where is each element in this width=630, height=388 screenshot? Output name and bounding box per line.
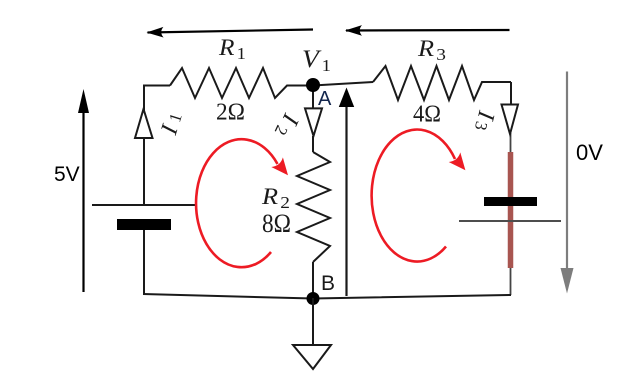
mesh current loop 2 (red, clockwise): [372, 130, 455, 262]
svg-text:4Ω: 4Ω: [413, 102, 441, 128]
resistor R3 zigzag: [373, 66, 511, 100]
wire R2 to node B: [312, 262, 314, 298]
arrow over R1 (points left): [148, 30, 314, 33]
mesh loop 2 arrowhead: [449, 152, 466, 170]
node V1 dot: [306, 78, 320, 92]
current arrow I3 (open triangle, down): [502, 105, 519, 135]
0V arrow (down, gray): [566, 72, 568, 277]
right battery thin plate: [459, 220, 561, 222]
svg-text:0V: 0V: [576, 140, 603, 165]
current arrow I1 (open triangle, up): [135, 109, 153, 138]
svg-text:B: B: [321, 272, 335, 295]
left battery thick plate: [117, 219, 171, 230]
ground wire: [312, 298, 314, 345]
label I2: [276, 109, 304, 129]
svg-text:5V: 5V: [54, 163, 80, 186]
5V arrow (up): [82, 104, 84, 292]
ground symbol: [293, 345, 331, 369]
label I3: [472, 107, 500, 123]
right battery thick plate: [484, 197, 537, 206]
resistor R1 zigzag: [170, 68, 313, 98]
svg-text:2Ω: 2Ω: [216, 100, 245, 126]
current arrow I2 (open triangle, down): [305, 108, 322, 136]
left wire: battery bottom to bottom-left corner: [143, 230, 145, 294]
node B dot: [307, 292, 320, 305]
right wire down from R3: [510, 82, 512, 105]
svg-text:A: A: [318, 88, 332, 110]
wire top-left corner to R1: [144, 86, 170, 206]
resistor R2 zigzag (vertical): [297, 152, 330, 262]
left battery thin plate: [92, 204, 197, 206]
wire below I3 arrow to bottom: [510, 133, 512, 295]
middle branch: node to I2: [312, 86, 314, 110]
arrow over R3 (points left): [346, 29, 510, 32]
probe arrow at node A (up): [345, 104, 347, 296]
mesh loop 1 arrowhead: [271, 157, 288, 175]
wire I2 to R2: [312, 136, 314, 152]
highlighted wire segment (brown): [508, 152, 514, 268]
svg-text:8Ω: 8Ω: [262, 209, 291, 238]
bottom wire: [143, 294, 511, 299]
mesh current loop 1 (red, clockwise): [196, 139, 277, 267]
label I1: [156, 121, 184, 138]
wire node A to R3: [313, 82, 373, 86]
